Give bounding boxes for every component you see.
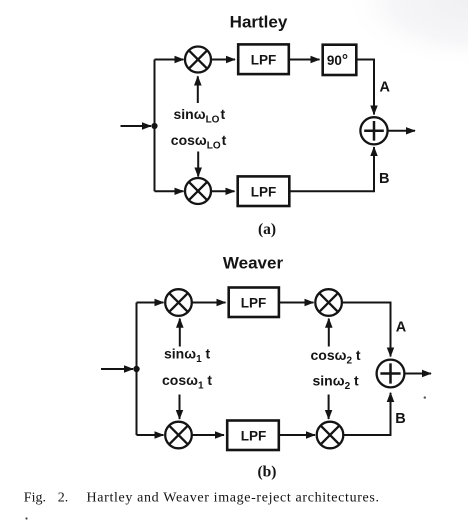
svg-text:LPF: LPF bbox=[251, 185, 277, 200]
mixer W3 bbox=[165, 422, 192, 449]
mixer M2 bbox=[185, 178, 211, 204]
wire to mixer M1 bbox=[155, 59, 184, 61]
wire LPF2 to summer S1 (node B path) bbox=[291, 147, 375, 191]
mixer W2 bbox=[315, 289, 342, 316]
wire LO up arrow to M1 bbox=[197, 76, 199, 103]
scan speck bottom-left period bbox=[25, 517, 27, 519]
wire M2 to LPF2 bbox=[211, 190, 235, 192]
svg-text:(a): (a) bbox=[258, 221, 276, 238]
mixer W4 bbox=[317, 422, 344, 449]
junction dot (b) bbox=[133, 366, 139, 372]
90 degree box bbox=[323, 45, 357, 75]
LPF box 2 bbox=[238, 176, 290, 206]
wire 90deg to summer S1 bbox=[358, 60, 375, 115]
svg-text:A: A bbox=[380, 80, 391, 96]
wire summer S2 output bbox=[405, 373, 432, 375]
mixer W1 bbox=[165, 289, 192, 316]
svg-text:B: B bbox=[379, 171, 389, 187]
wire to mixer M2 bbox=[155, 190, 184, 192]
wire w2 up arrow to W2 bbox=[328, 319, 330, 347]
mixer M1 bbox=[185, 47, 211, 73]
wire LO down arrow to M2 bbox=[197, 152, 199, 177]
wire w1 up arrow to W1 bbox=[179, 319, 181, 347]
wire M1 to LPF1 bbox=[211, 59, 235, 61]
svg-text:LPF: LPF bbox=[251, 53, 277, 68]
LPF box 1 bbox=[238, 44, 289, 74]
wire LPF3 to mixer W2 bbox=[280, 302, 314, 304]
wire summer S1 output bbox=[388, 130, 415, 132]
scan speck near summer S2 bbox=[424, 396, 426, 398]
wire branch vertical (a) bbox=[154, 60, 156, 192]
LPF box 4 bbox=[227, 421, 279, 451]
junction dot (a) bbox=[151, 123, 157, 129]
wire w1 down arrow to W3 bbox=[179, 395, 181, 420]
wire branch vertical (b) bbox=[136, 303, 138, 436]
scan shading top-right corner bbox=[318, 0, 468, 80]
wire input (a) bbox=[121, 125, 152, 127]
svg-text:B: B bbox=[395, 411, 405, 427]
wire to mixer W3 bbox=[137, 434, 164, 436]
svg-text:(b): (b) bbox=[258, 464, 277, 481]
svg-text:A: A bbox=[396, 320, 407, 336]
svg-text:Weaver: Weaver bbox=[223, 254, 284, 273]
summer S2 bbox=[377, 360, 405, 388]
LPF box 3 bbox=[229, 288, 279, 318]
wire w2 down arrow to W4 bbox=[328, 395, 330, 420]
summer S1 bbox=[360, 117, 387, 144]
wire to mixer W1 bbox=[137, 302, 164, 304]
svg-text:LPF: LPF bbox=[241, 296, 267, 311]
wire LPF1 to 90deg box bbox=[290, 59, 320, 61]
wire W4 to summer S2 (node B path) bbox=[343, 393, 390, 435]
wire W2 to summer S2 (node A path) bbox=[342, 303, 390, 357]
wire LPF4 to mixer W4 bbox=[280, 434, 315, 436]
svg-text:Hartley: Hartley bbox=[230, 12, 288, 31]
wire input (b) bbox=[101, 368, 133, 370]
svg-text:90°: 90° bbox=[327, 52, 348, 69]
svg-text:LPF: LPF bbox=[241, 429, 267, 444]
wire W3 to LPF4 bbox=[192, 434, 224, 436]
wire W1 to LPF3 bbox=[192, 302, 226, 304]
